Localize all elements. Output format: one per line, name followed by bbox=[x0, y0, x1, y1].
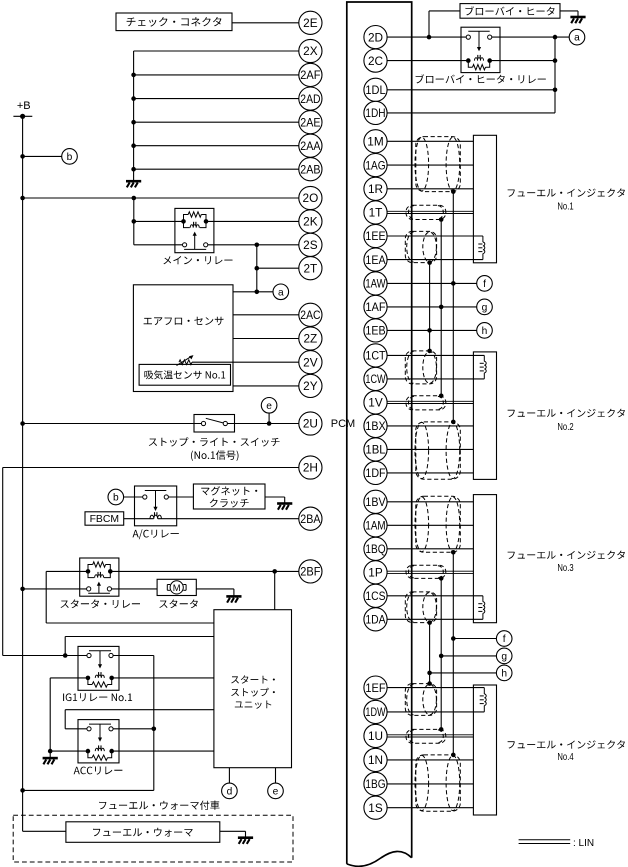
relay blow-by heater relay bbox=[461, 27, 500, 72]
node e circle 2 bbox=[268, 783, 284, 799]
wire to e bbox=[268, 413, 270, 423]
wire 1EE bbox=[387, 235, 483, 237]
wire 2K left bbox=[134, 220, 184, 222]
wire 2C out bbox=[490, 60, 555, 62]
node 2BF to unit bbox=[272, 569, 277, 574]
svg-text:2V: 2V bbox=[303, 355, 318, 369]
wire IG1 coil to unit 3 bbox=[114, 677, 214, 679]
wire ACC coil to unit 5 bbox=[114, 750, 214, 752]
wire g bus lower bbox=[440, 578, 442, 729]
svg-text:1BX: 1BX bbox=[365, 419, 385, 433]
node shield3b drain bbox=[439, 576, 444, 581]
shield 1T bbox=[406, 205, 446, 219]
node IG1 branch bbox=[63, 653, 68, 658]
svg-text:1M: 1M bbox=[367, 135, 383, 149]
svg-text:1AG: 1AG bbox=[365, 158, 385, 172]
node 2AF tap bbox=[131, 73, 136, 78]
pin 1EA bbox=[364, 248, 387, 271]
wire to f lower bbox=[453, 638, 496, 640]
node a junction bbox=[254, 290, 259, 295]
svg-text:b: b bbox=[67, 152, 73, 163]
node 2S to 2T bus bbox=[254, 243, 259, 248]
fuel injector No.4 box bbox=[473, 685, 496, 815]
node g junction lower bbox=[439, 654, 444, 659]
svg-text:1R: 1R bbox=[368, 182, 383, 196]
wire 1P LIN bbox=[387, 570, 473, 572]
legend LIN bbox=[519, 839, 571, 841]
node +B to starter switch bbox=[20, 587, 25, 592]
wire 1BV bbox=[387, 501, 473, 503]
relay main relay bbox=[175, 208, 214, 252]
svg-text:e: e bbox=[273, 787, 279, 798]
svg-text:h: h bbox=[501, 669, 507, 680]
svg-text:1AM: 1AM bbox=[365, 519, 385, 533]
relay A/C relay bbox=[135, 486, 177, 526]
node b tap bbox=[20, 154, 25, 159]
node 2AE tap bbox=[131, 120, 136, 125]
svg-text:e: e bbox=[266, 401, 272, 412]
node shield3a drain bbox=[451, 550, 456, 555]
pin 2D bbox=[364, 25, 387, 48]
node heater tap bbox=[427, 35, 432, 40]
wire unit to ACC switch bbox=[65, 709, 214, 711]
pin 1DA bbox=[364, 608, 387, 631]
pin 2Z bbox=[299, 327, 322, 350]
pin 2O bbox=[299, 186, 322, 209]
wire 1CW bbox=[387, 378, 484, 380]
pin 1DF bbox=[364, 461, 387, 484]
pin 2C bbox=[364, 49, 387, 72]
wire 1EB to h bbox=[387, 329, 477, 331]
svg-text:2X: 2X bbox=[303, 44, 318, 58]
wire ground bus vertical bbox=[133, 51, 135, 181]
wire starter coil left bbox=[46, 570, 88, 572]
wire h bus upper bbox=[429, 263, 431, 351]
stop light switch bbox=[194, 415, 235, 433]
ground ACC IG1 bbox=[49, 751, 51, 757]
node shield4c drain bbox=[451, 753, 456, 758]
pin 2BA bbox=[299, 507, 322, 530]
svg-text:1BG: 1BG bbox=[365, 777, 385, 791]
node e circle bbox=[261, 398, 277, 414]
svg-text:2AD: 2AD bbox=[300, 92, 320, 106]
wire 1N bbox=[387, 759, 473, 761]
wire 2O bbox=[23, 197, 299, 199]
wire h bus lower bbox=[429, 623, 431, 684]
ground starter motor bbox=[226, 595, 241, 598]
wire 2AA bbox=[134, 145, 299, 147]
wire main relay bus vertical bbox=[133, 198, 135, 245]
svg-text:2BF: 2BF bbox=[300, 565, 320, 579]
wire 2X bbox=[134, 50, 299, 52]
injector No.4 coil bbox=[483, 688, 485, 694]
wire 2T bus vertical bbox=[256, 245, 258, 292]
wire 1M bbox=[387, 140, 473, 142]
node +B to 2O bbox=[20, 196, 25, 201]
node a circle bbox=[273, 284, 289, 300]
wire 1DW bbox=[387, 711, 484, 713]
node shield4a drain bbox=[427, 681, 432, 686]
node shield1a drain bbox=[451, 189, 456, 194]
airflow sensor box bbox=[133, 285, 233, 392]
wire 2AF bbox=[134, 74, 299, 76]
node a bus top bbox=[553, 35, 558, 40]
node h circle lower bbox=[496, 665, 512, 681]
wire 1DL bbox=[387, 89, 555, 91]
wire 1T LIN bbox=[387, 210, 473, 212]
wire 1DH bbox=[387, 112, 555, 114]
svg-text:1CW: 1CW bbox=[365, 372, 386, 386]
wire a net bbox=[233, 291, 273, 293]
wire unit to d bbox=[228, 768, 230, 783]
wire starter coil bus down bbox=[45, 571, 47, 623]
node b circle 2 bbox=[108, 489, 124, 505]
wire 2H to IG1 switch bbox=[3, 655, 87, 657]
wire 2C bbox=[387, 60, 468, 62]
start stop unit box bbox=[214, 610, 292, 768]
svg-text:1AW: 1AW bbox=[365, 277, 386, 291]
svg-text:2D: 2D bbox=[368, 30, 383, 44]
pin 2BF bbox=[299, 560, 322, 583]
svg-text:2O: 2O bbox=[303, 191, 319, 205]
wire 1BL bbox=[387, 448, 473, 450]
node g junction bbox=[439, 305, 444, 310]
svg-text:2Z: 2Z bbox=[304, 332, 318, 346]
svg-text:d: d bbox=[227, 787, 233, 798]
svg-text:h: h bbox=[482, 326, 488, 337]
pin 1P bbox=[364, 561, 387, 584]
pin 1DH bbox=[364, 101, 387, 124]
wire ACC coil left bbox=[50, 750, 86, 752]
pin 1CS bbox=[364, 584, 387, 607]
wire 1EF bbox=[387, 687, 484, 689]
node ACC switch out bbox=[152, 727, 157, 732]
wire 1U LIN bbox=[387, 734, 473, 736]
svg-text:1DL: 1DL bbox=[365, 83, 386, 97]
node shield1c drain bbox=[427, 260, 432, 265]
pin 1R bbox=[364, 177, 387, 200]
wire 2Y bbox=[233, 385, 299, 387]
pin 1BG bbox=[364, 772, 387, 795]
wire 1V LIN bbox=[387, 400, 473, 402]
shield 1V bbox=[406, 396, 446, 410]
node shield2a drain bbox=[427, 349, 432, 354]
pin 2AE bbox=[299, 111, 322, 134]
svg-text:2K: 2K bbox=[303, 215, 318, 229]
pin 1V bbox=[364, 391, 387, 414]
wire 1AM bbox=[387, 524, 473, 526]
wire 2H vertical bbox=[2, 468, 4, 656]
wire 2AC bbox=[233, 314, 299, 316]
wire 2BF bbox=[110, 570, 298, 572]
wire 1S bbox=[387, 807, 473, 809]
wire to start stop unit 1 bbox=[46, 622, 214, 624]
blow-by heater box bbox=[460, 4, 560, 19]
wire magnet clutch to ground bbox=[265, 496, 285, 498]
svg-text:1BL: 1BL bbox=[365, 443, 386, 457]
svg-text:1BV: 1BV bbox=[365, 495, 385, 509]
shield injector1 power wires bbox=[416, 137, 461, 192]
pin 1DL bbox=[364, 78, 387, 101]
wire 1BG bbox=[387, 783, 473, 785]
FBCM box bbox=[85, 512, 124, 525]
wire FBCM to coil bbox=[124, 518, 154, 520]
wire ground bus vertical bbox=[49, 678, 51, 751]
wire to h lower bbox=[430, 672, 497, 674]
node main relay bus top bbox=[132, 196, 137, 201]
svg-text:f: f bbox=[503, 634, 506, 645]
shield injector2 power wires bbox=[416, 422, 461, 479]
shield 1EF 1DW bbox=[405, 684, 436, 716]
wire branch to unit 2 bbox=[64, 637, 66, 656]
svg-text:1U: 1U bbox=[368, 729, 383, 743]
wire 2AE bbox=[134, 121, 299, 123]
node 2T tap bbox=[254, 266, 259, 271]
wire a bus vertical bbox=[554, 37, 556, 113]
pin 1CT bbox=[364, 344, 387, 367]
svg-text:2U: 2U bbox=[303, 417, 318, 431]
svg-text:2AF: 2AF bbox=[300, 68, 320, 82]
label fuel injector No.1 bbox=[508, 188, 625, 197]
svg-text:2H: 2H bbox=[303, 461, 318, 475]
wire 1CS bbox=[387, 595, 483, 597]
svg-text:g: g bbox=[482, 303, 488, 314]
svg-text:1DW: 1DW bbox=[365, 705, 386, 719]
pin 2AD bbox=[299, 87, 322, 110]
node 2AB tap bbox=[131, 167, 136, 172]
label fuel injector No.3 bbox=[508, 551, 625, 560]
svg-text:2T: 2T bbox=[304, 261, 318, 275]
ground for 2X bus bbox=[126, 180, 141, 183]
pin 1M bbox=[364, 130, 387, 153]
node f junction lower bbox=[451, 636, 456, 641]
wire 1DF bbox=[387, 472, 473, 474]
svg-text:a: a bbox=[574, 33, 580, 44]
svg-text:1EF: 1EF bbox=[365, 681, 385, 695]
svg-text:f: f bbox=[483, 279, 486, 290]
node b circle bbox=[62, 149, 78, 165]
fuel injector No.3 box bbox=[473, 495, 496, 623]
svg-text:2S: 2S bbox=[303, 238, 318, 252]
pin 2S bbox=[299, 233, 322, 256]
node shield4b drain bbox=[439, 727, 444, 732]
pin 2V bbox=[299, 351, 322, 374]
wire +B to IG1/ACC vertical bbox=[23, 789, 154, 791]
wire 2S left bbox=[134, 244, 183, 246]
shield injector4 power wires bbox=[416, 755, 461, 811]
wire 2U left bbox=[23, 423, 202, 425]
svg-text:1CS: 1CS bbox=[365, 589, 385, 603]
pin 1N bbox=[364, 748, 387, 771]
node shield1b drain bbox=[439, 217, 444, 222]
svg-text:No.4: No.4 bbox=[557, 752, 574, 763]
pin 2H bbox=[299, 456, 322, 479]
svg-text:: LIN: : LIN bbox=[573, 838, 594, 849]
svg-text:b: b bbox=[113, 493, 119, 504]
wire unit top vertical bbox=[274, 571, 276, 609]
node f circle lower bbox=[496, 631, 512, 647]
svg-text:2Y: 2Y bbox=[303, 379, 318, 393]
node a circle top bbox=[569, 29, 585, 45]
wire ACC switch out bbox=[113, 728, 154, 730]
node shield3c drain bbox=[427, 620, 432, 625]
ground fuel warmer bbox=[238, 836, 253, 839]
fuel warmer box bbox=[66, 822, 220, 843]
wire f bus upper bbox=[452, 192, 454, 422]
svg-text:1CT: 1CT bbox=[365, 349, 385, 363]
injector No.3 coil bbox=[482, 596, 484, 602]
svg-text:2AE: 2AE bbox=[300, 115, 320, 129]
node h junction lower bbox=[427, 671, 432, 676]
pin 1BQ bbox=[364, 537, 387, 560]
wire 1AW to f bbox=[387, 282, 477, 284]
pin 2K bbox=[299, 210, 322, 233]
wire IG1 switch out bbox=[113, 655, 154, 657]
wire 2AB bbox=[134, 168, 299, 170]
wire +B bus vertical bbox=[22, 116, 24, 831]
node 2AD tap bbox=[131, 96, 136, 101]
relay IG1 relay No.1 bbox=[78, 646, 119, 690]
pin 2AF bbox=[299, 63, 322, 86]
PCM module box bbox=[347, 2, 412, 864]
ground blow-by heater bbox=[570, 16, 585, 19]
shield 1CS 1DA bbox=[405, 592, 436, 623]
wire b to A/C relay bbox=[124, 496, 143, 498]
wire 1AG bbox=[387, 164, 473, 166]
wire 1DA bbox=[387, 618, 483, 620]
node h junction bbox=[427, 328, 432, 333]
wire starter switch to motor bbox=[112, 588, 158, 590]
wire motor to ground bbox=[196, 588, 234, 590]
node g circle bbox=[477, 299, 493, 315]
fuel injector No.2 box bbox=[473, 352, 496, 480]
svg-text:2C: 2C bbox=[368, 54, 384, 68]
svg-text:2E: 2E bbox=[303, 16, 318, 30]
wire 2H bbox=[3, 467, 299, 469]
pin 1AG bbox=[364, 154, 387, 177]
svg-text:2BA: 2BA bbox=[300, 512, 320, 526]
pin 2AB bbox=[299, 158, 322, 181]
svg-text:1V: 1V bbox=[368, 396, 383, 410]
node +B to 2U bbox=[20, 421, 25, 426]
svg-text:1EE: 1EE bbox=[365, 229, 385, 243]
svg-text:PCM: PCM bbox=[331, 418, 355, 430]
wire coil out to 2BA bbox=[158, 518, 299, 520]
node f junction bbox=[451, 281, 456, 286]
wire heater to 2D bbox=[429, 10, 460, 12]
wire 1R bbox=[387, 188, 473, 190]
svg-text:No.2: No.2 bbox=[557, 422, 573, 433]
svg-text:1DF: 1DF bbox=[365, 466, 385, 480]
svg-text:1S: 1S bbox=[368, 801, 383, 815]
magnet clutch box bbox=[193, 484, 265, 509]
injector No.1 coil bbox=[482, 236, 484, 242]
node 2C tap bbox=[553, 58, 558, 63]
wire to g lower bbox=[441, 655, 496, 657]
node 2K tap bbox=[132, 219, 137, 224]
wire g bus upper bbox=[440, 220, 442, 396]
shield 1P bbox=[406, 565, 446, 578]
pin 2Y bbox=[299, 374, 322, 397]
wire IG1-ACC vertical bbox=[153, 656, 155, 791]
wire +B to fuel warmer bbox=[23, 830, 66, 832]
pin 1U bbox=[364, 724, 387, 747]
shield 1CT 1CW bbox=[405, 351, 436, 384]
pin 1T bbox=[364, 201, 387, 224]
svg-text:1P: 1P bbox=[368, 566, 383, 580]
svg-text:No.3: No.3 bbox=[557, 563, 574, 574]
intake air temp sensor thermistor bbox=[179, 360, 192, 365]
svg-text:1DA: 1DA bbox=[365, 613, 385, 627]
ground magnet clutch bbox=[277, 502, 292, 505]
pin 2AC bbox=[299, 303, 322, 326]
wire heater to ground bbox=[560, 10, 578, 12]
wire fuel warmer to ground bbox=[220, 830, 246, 832]
pin 1AF bbox=[364, 295, 387, 318]
wire starter switch left bbox=[23, 588, 87, 590]
wire 1AF to g bbox=[387, 306, 477, 308]
wire unit to e bbox=[275, 768, 277, 783]
wire check connector to 2E bbox=[232, 22, 299, 24]
pin 2T bbox=[299, 257, 322, 280]
shield 1EE 1EA bbox=[405, 231, 436, 262]
wire 2K right bbox=[206, 220, 299, 222]
relay starter relay bbox=[80, 558, 119, 596]
svg-text:1T: 1T bbox=[369, 206, 383, 220]
pin 1DW bbox=[364, 700, 387, 723]
svg-text:1EA: 1EA bbox=[365, 253, 385, 267]
svg-text:No.1: No.1 bbox=[557, 201, 573, 212]
node g circle lower bbox=[496, 648, 512, 664]
svg-text:g: g bbox=[501, 652, 507, 663]
wire 1CT bbox=[387, 354, 484, 356]
pin 2X bbox=[299, 39, 322, 62]
pin 1S bbox=[364, 796, 387, 819]
wire 2U right bbox=[227, 423, 298, 425]
label fuel injector No.2 bbox=[508, 409, 625, 418]
check connector box bbox=[116, 13, 232, 31]
shield 1U bbox=[406, 729, 446, 743]
wire 2S right bbox=[208, 244, 299, 246]
node shield2c drain bbox=[451, 420, 456, 425]
node d circle bbox=[222, 783, 238, 799]
pin 2AA bbox=[299, 134, 322, 157]
wire 1BX bbox=[387, 425, 473, 427]
wire 2D bbox=[387, 36, 466, 38]
wire 2T bbox=[257, 267, 299, 269]
wire f bus lower bbox=[452, 552, 454, 755]
node 1DL tap bbox=[553, 88, 558, 93]
wire to b bbox=[23, 155, 62, 157]
intake air temp sensor box bbox=[139, 364, 230, 385]
pin 1BL bbox=[364, 438, 387, 461]
wire 1BQ bbox=[387, 548, 473, 550]
svg-text:FBCM: FBCM bbox=[90, 514, 119, 525]
pin 2E bbox=[299, 11, 322, 34]
svg-text:1EB: 1EB bbox=[365, 324, 385, 338]
svg-text:2AA: 2AA bbox=[300, 139, 320, 153]
wire A/C switch to magnet clutch bbox=[168, 496, 193, 498]
svg-text:a: a bbox=[278, 287, 284, 298]
pin 1EF bbox=[364, 676, 387, 699]
pin 2U bbox=[299, 412, 322, 435]
node 2AA tap bbox=[131, 143, 136, 148]
node +B to relay feed bbox=[20, 788, 25, 793]
wire 2Z bbox=[233, 338, 299, 340]
pin 1BX bbox=[364, 414, 387, 437]
svg-text:+B: +B bbox=[17, 100, 31, 112]
svg-text:1BQ: 1BQ bbox=[365, 542, 385, 556]
